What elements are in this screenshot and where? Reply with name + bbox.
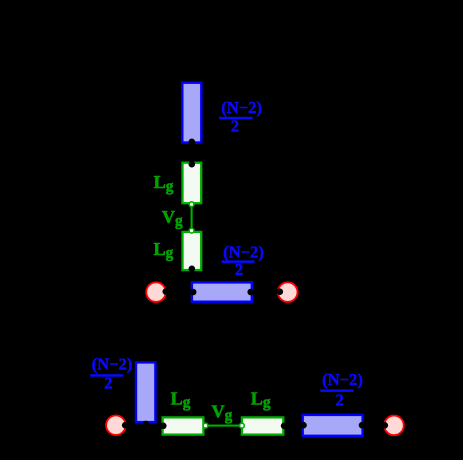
wire, Vg source gap (a) — [191, 204, 193, 230]
dipole arm segment (N-2)/2 vertical, figure (b) — [136, 362, 155, 422]
port circle left, figure (b) — [106, 415, 126, 435]
junction dot, bottom of lower Lg (a) — [189, 266, 196, 273]
node terminal, Vg top (a) — [189, 202, 194, 207]
fraction bar, figure (a) bottom — [222, 260, 255, 263]
junction dot, bottom of top arm (a) — [189, 139, 196, 146]
svg-text:2: 2 — [231, 116, 239, 135]
dipole arm segment (N-2)/2 horizontal, figure (a) — [192, 282, 252, 301]
node terminal, Vg bottom (a) — [189, 228, 194, 233]
junction dot, right end of horizontal arm (b) — [359, 422, 366, 429]
dipole arm segment (N-2)/2 top, figure (a) — [182, 83, 201, 143]
svg-text:2: 2 — [235, 260, 243, 279]
port circle left, figure (a) — [146, 282, 166, 302]
svg-text:Lg: Lg — [154, 172, 174, 195]
gap-load inductor Lg left, figure (b) — [163, 417, 204, 434]
wire, Vg source gap (b) — [206, 425, 242, 427]
junction dot, right end of horizontal arm (a) — [247, 289, 254, 296]
junction dot, left port (b) — [122, 422, 129, 429]
svg-text:Vg: Vg — [162, 207, 183, 230]
svg-text:(N−2): (N−2) — [92, 354, 133, 373]
port circle right, figure (b) — [384, 416, 404, 436]
fraction bar, figure (a) top — [219, 117, 253, 120]
node terminal, Vg left (b) — [203, 423, 208, 428]
svg-text:(N−2): (N−2) — [322, 370, 363, 389]
svg-text:Lg: Lg — [171, 389, 191, 412]
svg-text:(N−2): (N−2) — [221, 98, 262, 117]
svg-text:Lg: Lg — [154, 239, 174, 262]
svg-text:Vg: Vg — [212, 402, 233, 425]
gap-load inductor Lg right, figure (b) — [242, 417, 283, 434]
junction dot, left port (a) — [163, 288, 170, 295]
gap-load inductor Lg lower, figure (a) — [183, 232, 202, 270]
svg-text:Lg: Lg — [251, 389, 271, 412]
junction dot, right port (a) — [277, 288, 284, 295]
junction dot, left end of horizontal arm (b) — [300, 422, 307, 429]
svg-text:2: 2 — [104, 374, 112, 393]
junction dot, bottom of vertical arm (b) — [143, 421, 150, 428]
gap-load inductor Lg upper, figure (a) — [183, 163, 202, 204]
fraction bar, figure (b) right — [320, 389, 353, 392]
junction dot, right port (b) — [382, 422, 389, 429]
dipole arm segment (N-2)/2 horizontal, figure (b) — [303, 415, 363, 436]
port circle right, figure (a) — [278, 282, 298, 302]
node terminal, Vg right (b) — [240, 423, 245, 428]
fraction bar, figure (b) left — [90, 374, 123, 377]
junction dot, right end of right Lg (b) — [281, 423, 288, 430]
svg-text:2: 2 — [335, 391, 343, 410]
junction dot, left end of left Lg (b) — [160, 423, 167, 430]
svg-text:(N−2): (N−2) — [223, 242, 264, 261]
junction dot, left end of horizontal arm (a) — [190, 289, 197, 296]
junction dot, top of upper Lg (a) — [189, 161, 196, 168]
